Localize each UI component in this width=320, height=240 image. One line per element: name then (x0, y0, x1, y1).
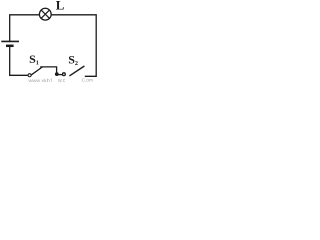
svg-text:C.om: C.om (82, 77, 93, 82)
svg-text:www.xkb1: www.xkb1 (28, 79, 53, 82)
svg-text:L: L (56, 0, 65, 12)
svg-text:w.c: w.c (58, 78, 66, 82)
